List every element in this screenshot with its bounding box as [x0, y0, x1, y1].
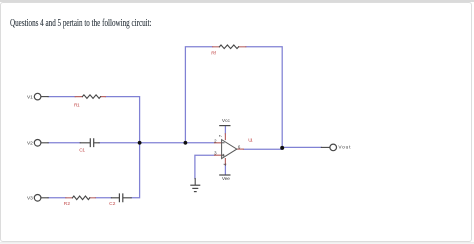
- svg-text:C2: C2: [109, 201, 116, 207]
- svg-text:Vout: Vout: [338, 144, 351, 150]
- svg-text:R1: R1: [74, 103, 80, 109]
- svg-text:Vee: Vee: [222, 176, 230, 182]
- svg-text:V1: V1: [27, 94, 33, 100]
- svg-text:R2: R2: [64, 201, 71, 207]
- svg-text:V2: V2: [27, 141, 33, 147]
- svg-text:7: 7: [218, 134, 223, 137]
- svg-text:V3: V3: [27, 196, 33, 202]
- svg-text:C1: C1: [79, 148, 85, 154]
- svg-text:Vcc: Vcc: [222, 118, 231, 124]
- svg-text:Rf: Rf: [211, 50, 216, 56]
- svg-text:U1: U1: [248, 137, 253, 143]
- svg-text:3: 3: [214, 150, 217, 155]
